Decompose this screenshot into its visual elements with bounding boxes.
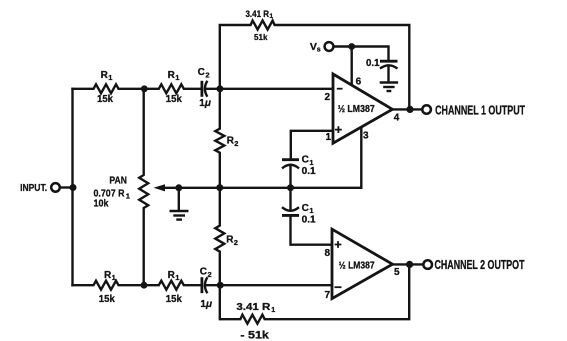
svg-text:4: 4 [394,112,400,123]
svg-text:C: C [200,266,207,277]
svg-text:C: C [302,203,309,214]
svg-text:15k: 15k [166,294,182,305]
svg-text:15k: 15k [97,94,113,105]
svg-text:0.1: 0.1 [302,214,316,225]
svg-text:CHANNEL 2 OUTPOT: CHANNEL 2 OUTPOT [435,257,525,272]
svg-text:3.41 R: 3.41 R [236,302,271,313]
svg-text:6: 6 [356,77,362,88]
svg-text:1: 1 [175,273,179,282]
svg-text:INPUT.: INPUT. [20,182,47,194]
svg-text:2: 2 [325,92,331,103]
svg-text:0.1: 0.1 [302,166,316,177]
svg-text:2: 2 [234,139,238,148]
svg-text:15k: 15k [166,94,182,105]
svg-text:C: C [302,154,309,165]
svg-text:s: s [317,47,321,54]
svg-text:3.41 R: 3.41 R [246,9,270,19]
svg-text:1: 1 [175,73,179,82]
svg-text:3: 3 [363,131,369,142]
svg-text:½ LM387: ½ LM387 [339,260,375,272]
svg-text:CHANNEL 1 OUTPUT: CHANNEL 1 OUTPUT [435,103,525,118]
svg-text:2: 2 [208,270,212,279]
svg-text:1μ: 1μ [199,98,211,109]
svg-text:1: 1 [112,273,116,282]
svg-text:5: 5 [394,267,400,278]
svg-text:15k: 15k [99,294,115,305]
svg-text:1: 1 [270,13,274,20]
svg-text:51k: 51k [254,32,268,42]
svg-text:½ LM387: ½ LM387 [338,103,375,115]
svg-text:- 51k: - 51k [240,329,269,341]
svg-text:1: 1 [271,305,275,314]
svg-text:1: 1 [326,132,332,143]
svg-text:PAN: PAN [109,174,127,186]
svg-text:1μ: 1μ [200,299,212,310]
svg-text:C: C [198,67,205,78]
svg-text:2: 2 [205,70,209,79]
svg-text:7: 7 [325,290,331,301]
svg-text:8: 8 [325,248,331,259]
svg-text:10k: 10k [94,199,109,210]
svg-text:1: 1 [126,191,130,200]
svg-text:1: 1 [108,73,112,82]
svg-text:2: 2 [234,238,238,247]
svg-text:0.1: 0.1 [366,58,380,69]
